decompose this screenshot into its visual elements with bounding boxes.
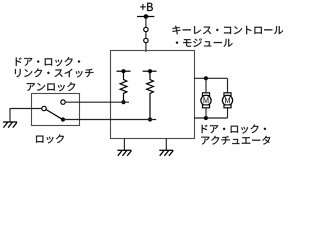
- node motor bottom rail junction: [204, 116, 208, 120]
- wire unlock terminal to R1: [65, 101, 129, 103]
- motor M1: [201, 78, 211, 118]
- keyless control module box U1: [111, 51, 195, 139]
- label door lock link switch line2: [15, 68, 93, 77]
- node R2 top junction dot: [148, 69, 152, 73]
- switch unlock terminal circle: [61, 100, 65, 104]
- wire switch common to ground: [10, 108, 42, 110]
- power label +B: [140, 3, 153, 11]
- power feed bar +B: [137, 16, 154, 18]
- resistor R2 terminal bar: [143, 70, 157, 72]
- node motor top rail junction: [204, 76, 208, 80]
- label door lock actuator line2: [201, 136, 270, 145]
- connector terminal circle lower: [144, 38, 148, 42]
- wire motor bottom rail: [194, 117, 228, 119]
- switch common terminal circle: [42, 106, 46, 110]
- motor M2: [222, 93, 232, 108]
- wire lock terminal to R2: [63, 119, 156, 121]
- wire connector to module: [145, 43, 147, 52]
- label keyless control module line2: [176, 38, 233, 46]
- ground G2: [117, 150, 131, 156]
- wire top rail corner down to M2: [227, 78, 229, 93]
- resistor R2: [147, 71, 154, 119]
- wire module to ground G2: [123, 138, 125, 150]
- wire module to ground G3: [165, 138, 167, 150]
- wire motor top rail: [194, 77, 228, 79]
- label unlock: [27, 82, 75, 91]
- resistor R1 terminal bar: [117, 70, 131, 72]
- power tap dot: [144, 14, 149, 19]
- switch lock terminal dot: [61, 117, 65, 121]
- door lock link switch box SW1: [32, 94, 80, 126]
- label lock: [36, 134, 64, 143]
- wire between connector halves: [145, 32, 147, 39]
- wire ground drop: [9, 108, 11, 122]
- wire bottom rail corner up to M2: [227, 108, 229, 118]
- wire +B down to connector: [145, 17, 147, 28]
- connector terminal circle upper: [144, 27, 148, 31]
- label keyless control module line1: [172, 26, 283, 35]
- node R2 bottom junction dot: [148, 117, 152, 121]
- ground G3: [159, 150, 173, 156]
- label door lock actuator line1: [202, 124, 266, 133]
- node R1 top junction dot: [121, 69, 125, 73]
- resistor R1: [120, 71, 127, 102]
- node R1 bottom junction dot: [121, 100, 125, 104]
- ground G1: [3, 122, 17, 128]
- switch arm: [46, 110, 62, 119]
- label door lock link switch line1: [16, 57, 80, 66]
